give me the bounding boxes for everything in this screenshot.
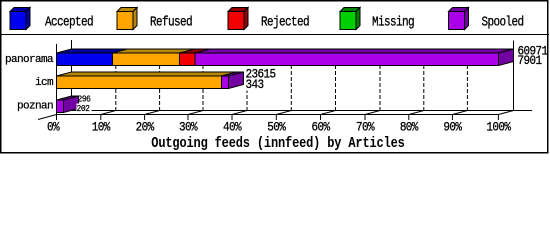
svg-text:40%: 40% — [223, 120, 242, 135]
svg-text:90%: 90% — [443, 120, 462, 135]
svg-text:icm: icm — [35, 77, 54, 89]
svg-text:70%: 70% — [356, 120, 375, 135]
svg-text:Refused: Refused — [150, 14, 192, 29]
svg-text:panorama: panorama — [5, 54, 54, 66]
svg-text:20%: 20% — [136, 120, 155, 135]
svg-text:50%: 50% — [267, 120, 286, 135]
svg-text:Missing: Missing — [372, 14, 414, 29]
svg-text:30%: 30% — [179, 120, 198, 135]
svg-text:100%: 100% — [486, 120, 511, 135]
svg-text:Rejected: Rejected — [261, 14, 309, 29]
svg-text:343: 343 — [246, 77, 264, 92]
svg-text:80%: 80% — [400, 120, 419, 135]
svg-text:7901: 7901 — [518, 53, 542, 68]
svg-text:poznan: poznan — [17, 101, 53, 113]
svg-text:Accepted: Accepted — [45, 14, 93, 29]
svg-text:0%: 0% — [47, 120, 60, 135]
svg-text:10%: 10% — [92, 120, 111, 135]
svg-text:60%: 60% — [312, 120, 331, 135]
svg-text:Spooled: Spooled — [482, 14, 524, 29]
svg-text:202: 202 — [77, 104, 90, 114]
svg-text:Outgoing feeds (innfeed) by Ar: Outgoing feeds (innfeed) by Articles — [151, 135, 405, 151]
